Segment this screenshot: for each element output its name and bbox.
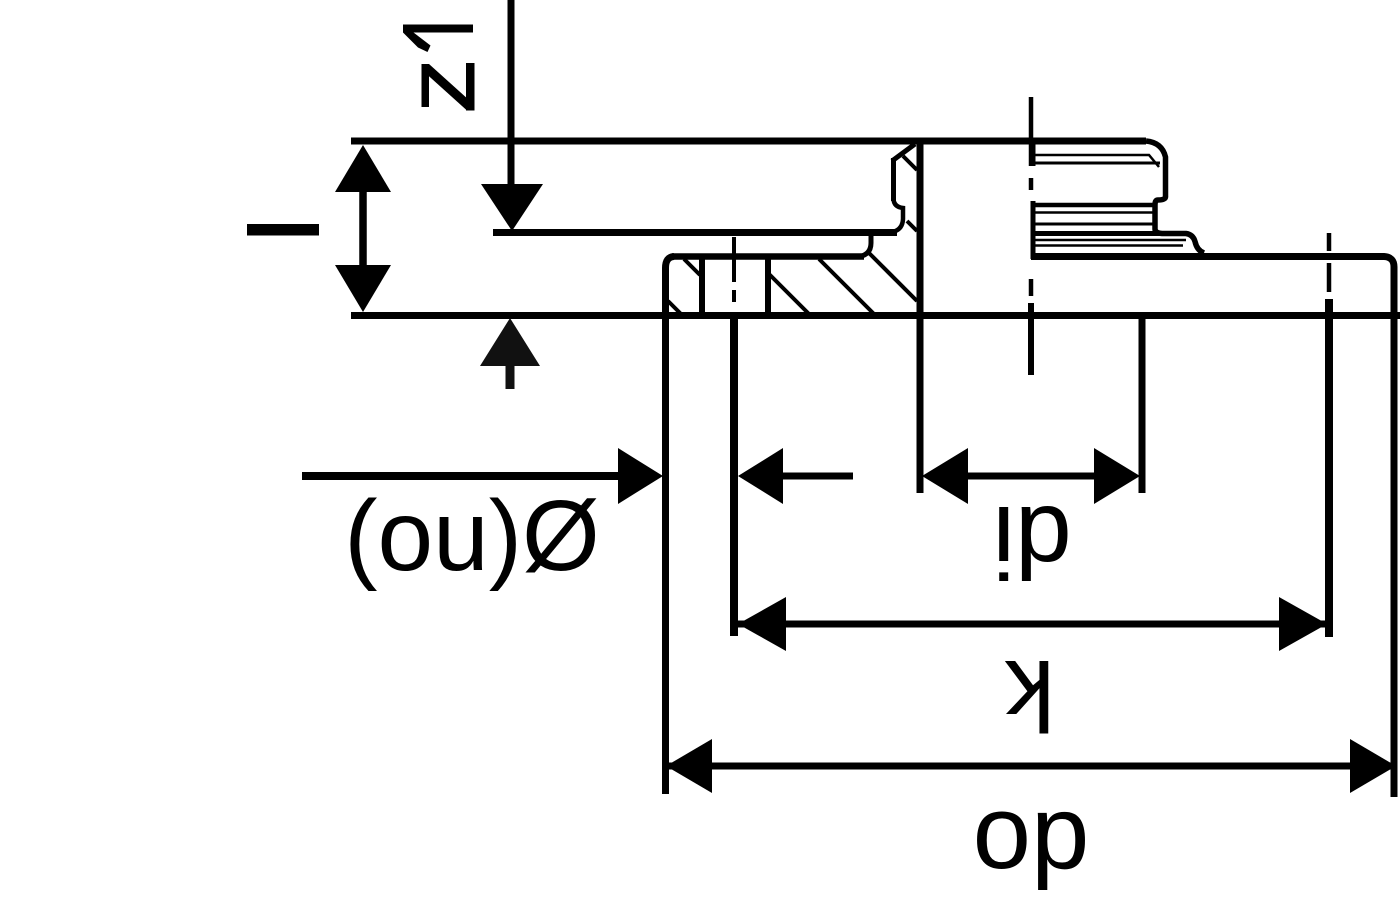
arrowhead di left: [922, 448, 968, 504]
centerline bolt hole left: [732, 237, 736, 302]
wire ridge line A: [1033, 203, 1156, 208]
label l bar: [247, 224, 319, 236]
hatch sliver bottom: [907, 221, 917, 231]
wire ridge line F: [1033, 244, 1183, 247]
wire ridge line C: [1033, 223, 1153, 226]
arrowhead di right: [1094, 448, 1140, 504]
svg-text:di: di: [992, 485, 1071, 599]
wire bolt hole left edge: [699, 259, 705, 315]
wire k dimension shaft: [738, 621, 1327, 628]
wire stub-end vertical edge: [891, 158, 896, 201]
wire centerline edge upper: [1031, 144, 1036, 166]
wire do dimension shaft: [666, 763, 1396, 770]
wire (no) dimension shaft left: [302, 472, 618, 480]
svg-text:(ou)Ø: (ou)Ø: [344, 480, 600, 592]
arrowhead (no) left at bolt center: [738, 448, 783, 504]
svg-text:k: k: [1004, 639, 1055, 751]
wire z1 leader line: [508, 0, 515, 186]
wire (no) dimension shaft right: [783, 473, 853, 480]
arrowhead k left: [738, 597, 786, 651]
wire bottom leader shaft: [506, 366, 515, 389]
node stub-end chamfer: [892, 144, 915, 161]
wire main vertical section edge and di extension left: [917, 140, 924, 493]
arrowhead bottom leader up: [480, 318, 540, 366]
node flange bore step curve: [860, 234, 871, 257]
hatch flange cell A line 1: [684, 259, 700, 275]
arrowhead (no) right: [618, 448, 663, 504]
hatch flange cell B line 1: [769, 274, 809, 314]
centerline fitting axis tail: [1028, 303, 1034, 375]
hatch flange cell B line 2: [819, 259, 874, 314]
wire flange left edge and do extension line: [666, 257, 675, 795]
arrowhead thickness up: [335, 145, 391, 192]
hatch flange cell A line 2: [668, 301, 681, 314]
svg-text:op: op: [973, 774, 1090, 891]
wire cap chamfer thin line 1: [1033, 155, 1159, 167]
wire ridge line E: [1033, 239, 1186, 242]
wire flange top surface left: [672, 253, 864, 260]
wire top outer line of fitting: [351, 138, 1146, 145]
wire di dimension shaft: [968, 473, 1094, 480]
wire bottom line of flange assembly: [351, 312, 1400, 319]
wire k extension left: [730, 318, 738, 636]
wire bolt hole right edge: [765, 259, 771, 315]
arrowhead do left: [666, 739, 712, 793]
centerline bolt hole right: [1327, 233, 1332, 292]
wire pipe inner end line (z1 reference): [493, 229, 897, 236]
arrowhead do right: [1350, 739, 1396, 793]
node cap right edge with corner, notch and lip: [1146, 141, 1204, 253]
wire cap chamfer thin line 2: [1033, 162, 1160, 165]
hatch sliver top: [903, 156, 917, 170]
wire di extension right: [1139, 314, 1146, 493]
label z1: [403, 25, 475, 111]
wire do extension right: [1391, 318, 1398, 797]
wire k extension right: [1325, 299, 1333, 637]
wire left thickness dimension shaft: [359, 185, 367, 270]
arrowhead thickness down: [335, 265, 391, 312]
centerline fitting axis: [1029, 97, 1034, 296]
arrowhead z1 down: [481, 184, 543, 231]
wire ridge line B: [1033, 211, 1153, 214]
wire ridge line D: [1033, 231, 1186, 236]
hatch flange cell B line 3: [869, 253, 917, 301]
wire centerline edge lower: [1031, 201, 1036, 259]
node stub-end bump profile: [894, 199, 904, 232]
arrowhead k right: [1279, 597, 1327, 651]
wire flange top surface right with corner: [1031, 257, 1394, 314]
